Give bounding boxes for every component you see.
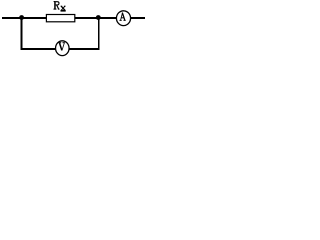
node junction left xyxy=(19,15,24,20)
voltmeter U2 circle xyxy=(56,41,70,56)
wire ammeter to right edge xyxy=(131,17,145,19)
voltmeter label V xyxy=(59,42,65,50)
wire top-left lead xyxy=(2,17,47,19)
label R of Rx xyxy=(54,1,60,10)
wire right vertical branch xyxy=(98,18,100,50)
wire left vertical branch xyxy=(21,18,23,50)
ammeter label A xyxy=(120,13,126,21)
resistor Rx xyxy=(46,15,74,22)
ammeter U1 circle xyxy=(116,11,130,26)
label x subscript of Rx xyxy=(61,6,66,12)
wire bottom-left to voltmeter xyxy=(21,48,56,50)
wire resistor to ammeter xyxy=(75,17,116,19)
node junction right xyxy=(96,15,101,20)
wire voltmeter to bottom-right xyxy=(70,48,100,50)
